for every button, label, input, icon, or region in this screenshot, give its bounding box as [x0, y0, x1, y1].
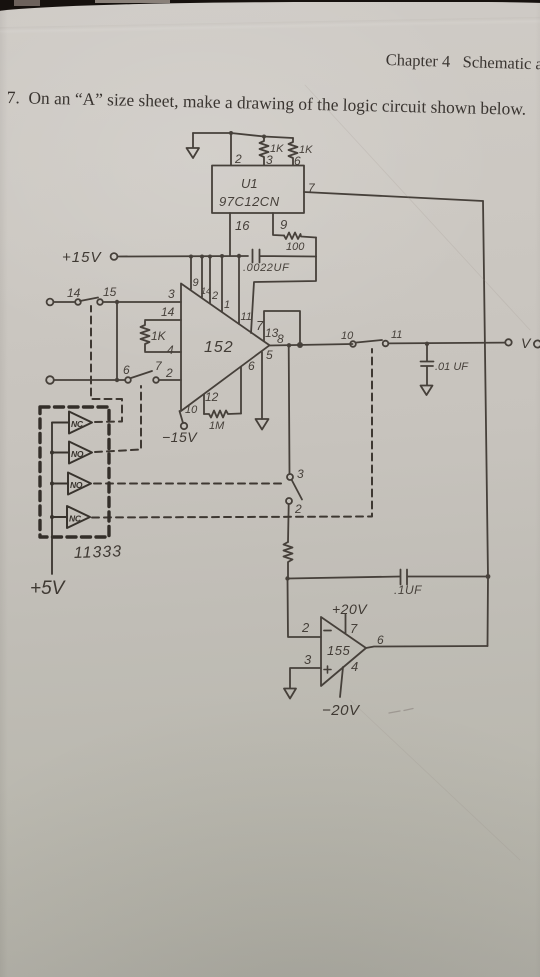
pin label 14 (U2 top)	[201, 286, 211, 296]
buffer B2 NO	[52, 442, 92, 464]
value label .01 UF (C2)	[435, 361, 469, 373]
pin label 7 (U1)	[308, 181, 316, 195]
svg-text:4: 4	[351, 659, 358, 674]
wire +5V bus vertical	[51, 423, 53, 574]
svg-text:3: 3	[304, 652, 312, 667]
pin label 7 (S2)	[155, 359, 163, 373]
svg-text:2: 2	[301, 620, 310, 635]
junction (427,343.8)	[425, 342, 429, 346]
wire U3 pin 7 (V+)	[345, 615, 347, 634]
wire 1M up to U2 pin 6	[240, 367, 242, 414]
pin label 7 (U2)	[256, 318, 264, 333]
svg-text:2: 2	[234, 152, 242, 166]
value label 1M (R5)	[209, 420, 225, 432]
wire R6 node to capacitor C3	[288, 577, 401, 579]
pin label 13 (U2)	[265, 326, 279, 340]
wire link between S1 and S2 rails	[116, 302, 118, 380]
svg-text:8: 8	[277, 332, 284, 346]
capacitor C1 .0022UF (series in rail)	[253, 250, 317, 263]
svg-text:NO: NO	[70, 480, 83, 490]
pin label 10 (U2 bottom)	[185, 404, 198, 416]
wire rail to U2 pin 9	[190, 257, 192, 290]
ground (U3 pin 3)	[284, 689, 296, 699]
pin label 1 (U2 top)	[224, 299, 230, 311]
wire U2 output to switch contact 10	[269, 344, 353, 346]
svg-text:U1: U1	[241, 176, 258, 191]
svg-text:1K: 1K	[151, 329, 167, 343]
wire cap node down-left to U2 pin 7	[251, 257, 316, 334]
dashed control line buffer NC4 to switch S3	[92, 349, 372, 518]
+5V supply label	[30, 578, 67, 599]
svg-text:16: 16	[235, 218, 250, 233]
junction (289,345.3)	[287, 343, 291, 347]
svg-text:11333: 11333	[74, 543, 123, 562]
svg-text:5: 5	[266, 348, 273, 362]
svg-text:152: 152	[204, 339, 234, 356]
svg-text:97C12CN: 97C12CN	[219, 194, 280, 209]
wire R6 node down to U3 pin 2	[288, 579, 322, 638]
junction (264,136.5)	[262, 135, 266, 139]
dark background strip above paper edge	[14, 0, 40, 6]
pin label 3 (U3)	[304, 652, 312, 667]
wire pin13 feedback loop rectangle	[264, 311, 300, 344]
wire U1 pin 16 down to +15V rail	[229, 213, 231, 256]
switch S2 arm	[131, 371, 152, 378]
junction (210,256.5)	[208, 255, 212, 259]
pin label 3 (S4)	[297, 467, 304, 481]
svg-text:1: 1	[224, 299, 230, 311]
+15V supply label	[62, 249, 102, 266]
terminal circle -15V	[181, 423, 187, 429]
svg-text:1K: 1K	[299, 144, 313, 156]
junction (287.5,578.5)	[285, 576, 289, 580]
wire U1 pin 9	[273, 213, 284, 236]
dashed enclosure box (buffer pack)	[40, 407, 109, 537]
wire contact 7 to U2 pin 2	[159, 379, 181, 381]
switch S3 contact 11	[383, 341, 389, 347]
resistor R2 1K (pin 6 pullup)	[289, 138, 298, 165]
pin label 4 (U3)	[351, 659, 358, 674]
pin label 11 (S3)	[391, 329, 402, 341]
switch S2 terminal circle (left)	[46, 376, 54, 384]
junction (52,483.5)	[50, 482, 54, 486]
pin label 5 (U2)	[266, 348, 273, 362]
svg-text:2: 2	[165, 366, 173, 380]
pin label 6 (U2 bottom)	[248, 359, 255, 373]
value label 1K (R4)	[151, 329, 167, 343]
buffer B4 NC	[52, 506, 90, 528]
wire S1 terminal to contact 14	[54, 301, 75, 303]
svg-text:NC: NC	[71, 419, 84, 429]
pin label 2 (U2 left)	[165, 366, 173, 380]
wire U3 pin 4 (V-)	[340, 667, 343, 697]
value label .0022UF (C1)	[243, 262, 290, 274]
ground (C2)	[421, 386, 433, 396]
resistor R3 100	[284, 233, 316, 240]
resistor R5 1M	[204, 411, 241, 418]
svg-text:6: 6	[377, 633, 384, 647]
junction (231,133)	[229, 131, 233, 135]
pin label 7 (U3)	[350, 621, 358, 636]
wire U1 pin 2	[230, 133, 232, 165]
wire rail to U2 pin 1	[221, 256, 223, 312]
value label .1UF (C3)	[394, 583, 422, 597]
svg-text:2: 2	[211, 290, 218, 302]
pin label 14 (S1)	[67, 286, 81, 300]
switch S1 contact 15	[97, 299, 103, 305]
op-amp U2 152 (main triangle)	[181, 284, 270, 412]
pin label 8 (U2)	[277, 332, 284, 346]
svg-text:9: 9	[280, 217, 287, 232]
pin label 10 (S3)	[341, 330, 354, 342]
pin label 15 (S1)	[103, 285, 117, 299]
svg-text:10: 10	[341, 330, 354, 342]
ground (top, above U1)	[187, 133, 200, 158]
wire U2 pin 10 to -15V terminal	[180, 411, 184, 423]
junction (52,517)	[50, 515, 54, 519]
wire S4 contact 2 down	[287, 504, 290, 542]
wire U2 pin 12 down	[203, 395, 205, 415]
wire U2 pin 14	[145, 319, 181, 321]
wire S3 to Vo	[389, 342, 506, 345]
svg-text:14: 14	[67, 286, 81, 300]
wire S2 terminal to contact 6	[54, 379, 125, 381]
wire U2 pin 5 to ground	[261, 352, 263, 419]
junction (191,256.5)	[189, 255, 193, 259]
pin label 16 (U1)	[235, 218, 250, 233]
switch S2 contact 7	[153, 377, 159, 383]
wire 100-resistor down to cap node	[315, 238, 317, 257]
svg-text:−15V: −15V	[162, 429, 198, 445]
node label Vo	[521, 335, 540, 351]
wire U3 pin 3 to ground	[290, 668, 321, 688]
wire output node down to switch S4	[288, 345, 291, 474]
wire switch 15 to U2 pin 3	[103, 301, 181, 303]
svg-text:4: 4	[167, 343, 174, 357]
dashed control line buffer NO2 to switch S2	[95, 386, 141, 452]
svg-text:14: 14	[201, 286, 211, 296]
svg-text:NO: NO	[71, 449, 84, 459]
svg-text:15: 15	[103, 285, 117, 299]
svg-text:10: 10	[185, 404, 198, 416]
svg-text:11: 11	[391, 329, 402, 341]
value label 100 (R3)	[286, 241, 305, 253]
junction (222,256)	[220, 254, 224, 258]
junction (52,452.5)	[50, 451, 54, 455]
op-amp U3 155	[321, 617, 366, 686]
svg-text:12: 12	[205, 390, 219, 404]
resistor R1 1K (pin 3 pullup)	[260, 137, 269, 166]
junction (117,380)	[115, 378, 119, 382]
dashed control line buffer NC1 to switch S1	[91, 306, 122, 422]
pin label 11 (U2 top)	[241, 311, 252, 323]
wire rail to U2 pin 14	[201, 257, 203, 298]
wire right-side vertical (pin7 feedback run)	[483, 201, 488, 646]
svg-text:2: 2	[294, 502, 302, 516]
junction (117,302)	[115, 300, 119, 304]
pin label 4 (U2 left)	[167, 343, 174, 357]
svg-text:+15V: +15V	[62, 249, 102, 266]
pin label 9 (U1)	[280, 217, 287, 232]
svg-text:14: 14	[161, 305, 175, 319]
faint page crease near top	[0, 17, 540, 34]
switch S4 contact 3	[287, 474, 293, 480]
svg-text:7: 7	[350, 621, 358, 636]
svg-text:6: 6	[248, 359, 255, 373]
svg-text:1M: 1M	[209, 420, 225, 432]
value label 1K (R2)	[299, 144, 313, 156]
pin label 14 (U2 left)	[161, 305, 175, 319]
switch S1 contact 14	[75, 299, 81, 305]
value label 1K (R1)	[270, 143, 284, 155]
svg-text:.01 UF: .01 UF	[435, 361, 469, 373]
+20V supply label	[332, 601, 368, 617]
junction (202,256.5)	[200, 255, 204, 259]
switch S4 arm	[292, 481, 302, 500]
wire U3 output pin 6	[366, 646, 488, 648]
junction (239,256)	[237, 254, 241, 258]
wire junction to capacitor C2	[426, 344, 428, 361]
svg-text:+5V: +5V	[30, 578, 67, 599]
pin label 6 (U1)	[294, 154, 301, 168]
svg-text:3: 3	[297, 467, 304, 481]
pin label 9 (U2 top)	[193, 277, 199, 289]
capacitor C3 .1UF	[401, 570, 489, 585]
terminal circle Vo	[505, 339, 511, 345]
pin label 2 (U3)	[301, 620, 310, 635]
-20V supply label	[322, 702, 361, 719]
switch S1 arm	[80, 298, 98, 302]
dashed control line buffer NO3 to switch S4	[94, 483, 282, 485]
svg-text:.0022UF: .0022UF	[243, 262, 290, 274]
svg-text:+20V: +20V	[332, 601, 368, 617]
wire U1 pin7 to right side	[304, 192, 483, 201]
svg-text:9: 9	[193, 277, 199, 289]
resistor R4 1K (pin14 to pin4)	[141, 321, 150, 351]
wire rail node to U2 pin 11	[238, 256, 240, 324]
capacitor C2 .01UF	[421, 362, 434, 386]
pin label 2 (U1)	[234, 152, 242, 166]
ground (U2 pin 5)	[256, 419, 269, 430]
pin label 2 (S4)	[294, 502, 302, 516]
switch S1 terminal circle (left)	[47, 299, 54, 306]
IC U1 97C12CN box	[212, 166, 304, 214]
svg-text:7: 7	[155, 359, 163, 373]
svg-text:V: V	[521, 335, 532, 351]
pin label 6 (S2)	[123, 363, 130, 377]
buffer B3 NO	[52, 473, 91, 495]
faint pencil smudges	[389, 709, 413, 714]
switch S3 contact 10	[350, 341, 356, 347]
wire top rail from ground to 1K resistors	[193, 133, 293, 138]
junction (300,345) large	[297, 342, 303, 348]
part label 11333	[74, 543, 123, 562]
wire rail to U2 pin 2	[209, 257, 211, 304]
pin label 2 (U2 top)	[211, 290, 218, 302]
switch S2 contact 6	[125, 377, 131, 383]
resistor R6 (vertical, unlabeled)	[284, 542, 293, 578]
svg-text:155: 155	[327, 643, 350, 658]
faint paper scratches	[305, 85, 530, 860]
svg-text:6: 6	[123, 363, 130, 377]
buffer B1 NC	[52, 412, 92, 434]
svg-text:NC: NC	[69, 514, 82, 524]
switch S3 arm	[357, 340, 383, 343]
junction (488,576.5)	[486, 574, 491, 579]
pin label 6 (U3)	[377, 633, 384, 647]
pin label 3 (U2 left)	[168, 287, 175, 301]
svg-text:100: 100	[286, 241, 305, 253]
svg-text:.1UF: .1UF	[394, 583, 422, 597]
wire +15V rail	[118, 255, 249, 258]
pin label 12 (U2 bottom)	[205, 390, 219, 404]
pin label 3 (U1)	[266, 153, 273, 167]
svg-text:7: 7	[256, 318, 264, 333]
svg-text:3: 3	[168, 287, 175, 301]
terminal circle +15V	[111, 253, 118, 260]
wire U2 pin 4	[145, 351, 181, 353]
switch S4 contact 2	[286, 498, 292, 504]
-15V supply label	[162, 429, 198, 445]
svg-text:11: 11	[241, 311, 252, 323]
